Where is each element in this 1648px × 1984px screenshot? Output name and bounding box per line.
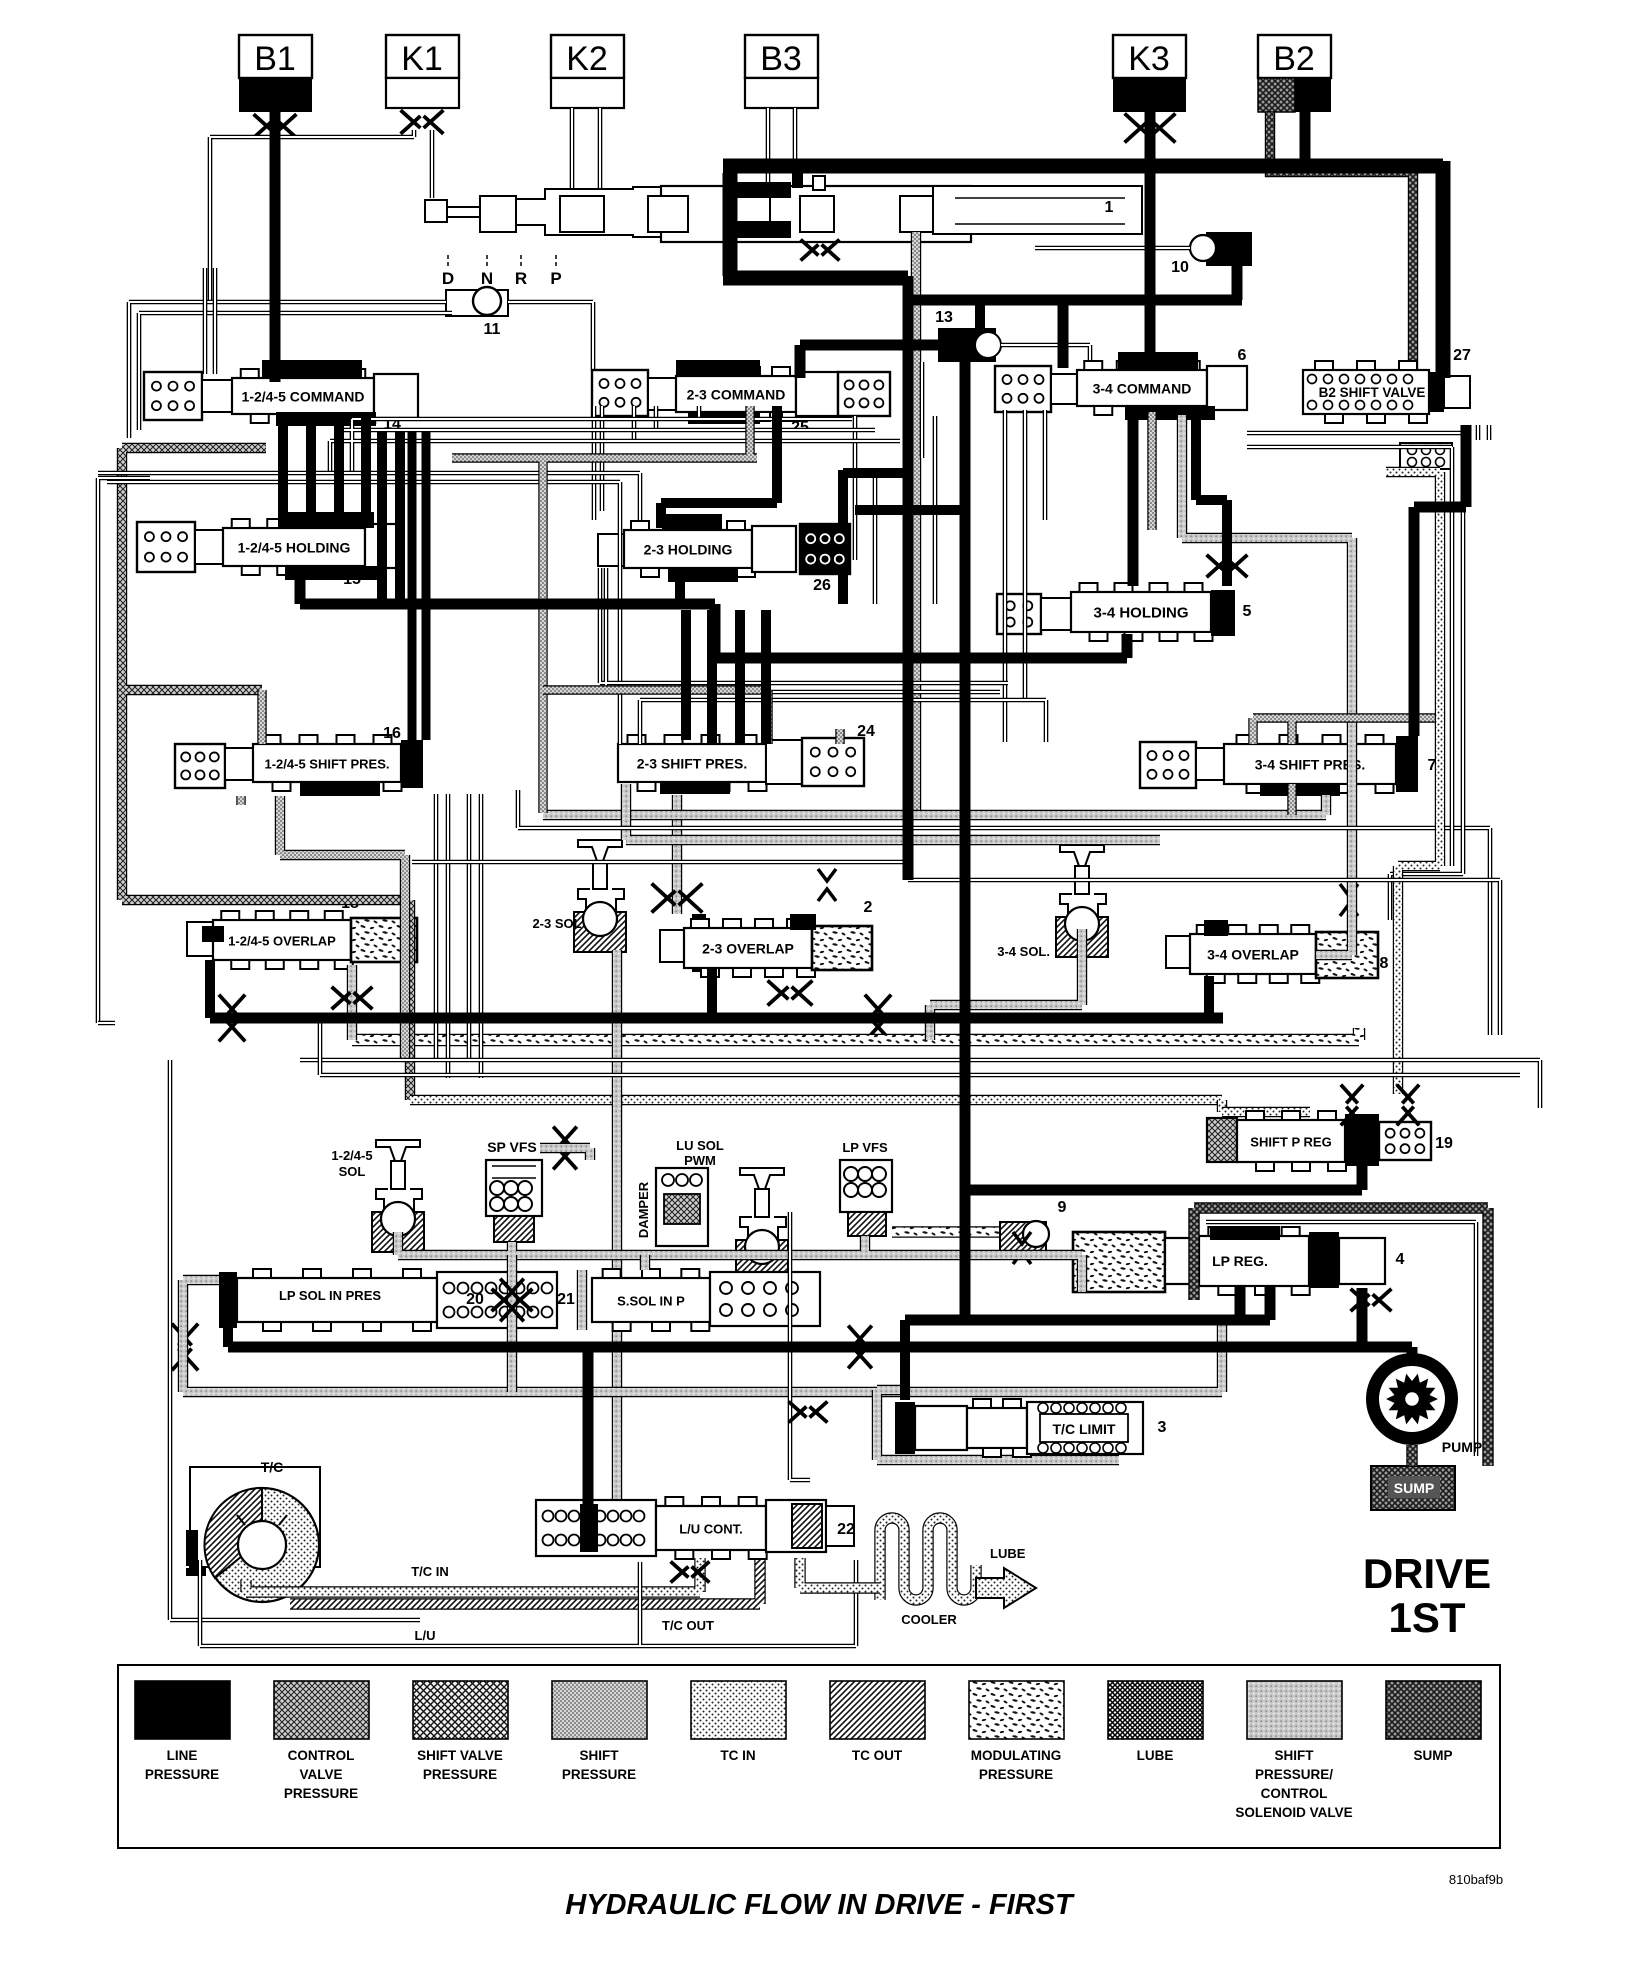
clutch/brake box B2: [1258, 35, 1331, 78]
torque converter T/C: [190, 1467, 320, 1567]
solenoid 1-2/4-5 SOL: [376, 1140, 420, 1161]
svg-text:TC OUT: TC OUT: [852, 1748, 903, 1763]
restrictor on speckled overlap1 drop: [333, 988, 371, 1008]
svg-text:2-3 SHIFT PRES.: 2-3 SHIFT PRES.: [637, 756, 747, 772]
legend swatch SHIFT VALVE PRESSURE: [413, 1681, 508, 1739]
modulating box before LP REG: [1073, 1232, 1165, 1292]
pipe from 13 ball to right: [1001, 345, 1090, 368]
dotted drop below 3-4 shift pres: [1287, 784, 1296, 815]
wire B3 pipes down to manual valve: [768, 108, 795, 186]
svg-text:3-4 COMMAND: 3-4 COMMAND: [1093, 381, 1192, 397]
pipe left outer boundary: [98, 478, 150, 1023]
wire 2-3 command right down to 2-3 holding: [661, 406, 777, 528]
pipes horizontal under overlap rail: [300, 1060, 1540, 1108]
wire 2-3 holding drops: [675, 570, 685, 604]
wire K1 pipes down-left: [402, 111, 442, 132]
svg-text:K1: K1: [401, 40, 443, 78]
dotted below 3-4 command: [1147, 412, 1156, 530]
control valve pressure left boundary line: [122, 448, 410, 1100]
T/C OUT hatched line: [290, 1558, 760, 1604]
svg-text:PWM: PWM: [684, 1153, 716, 1168]
wire B2 sump pattern line to B2 shift valve: [1270, 112, 1413, 380]
restrictor below K3: [1126, 115, 1174, 141]
restrictor under L/U cont: [672, 1563, 708, 1581]
svg-text:SHIFT: SHIFT: [580, 1748, 620, 1763]
svg-text:DAMPER: DAMPER: [636, 1181, 651, 1238]
legend swatch SUMP: [1386, 1681, 1481, 1739]
manual valve right chamber: [933, 186, 1142, 234]
speckled second horizontal: [626, 784, 1160, 840]
wire from check 10 to 3-4 command: [908, 266, 1242, 368]
manual valve black frame left/bottom: [723, 173, 908, 278]
restrictors above shift p reg: [1342, 1086, 1362, 1124]
valve 3-4 holding: [997, 594, 1041, 634]
svg-text:LP SOL IN PRES: LP SOL IN PRES: [279, 1288, 381, 1303]
svg-text:13: 13: [935, 309, 953, 326]
restrictor inside manual valve: [802, 241, 838, 259]
svg-text:T/C: T/C: [261, 1459, 284, 1475]
svg-text:D: D: [442, 269, 454, 288]
svg-text:SHIFT: SHIFT: [1275, 1748, 1315, 1763]
speckled line from overlap1 down to modulating rail: [347, 965, 357, 1040]
valve T/C LIMIT: [877, 1390, 1119, 1460]
shift pressure dotted from left cap of shift pres 1: [257, 690, 266, 744]
valve shift p reg: [1222, 1107, 1310, 1117]
valve 1-2/4-5 command: [144, 372, 202, 420]
speckled drop S SOL: [640, 1255, 650, 1270]
svg-text:LP REG.: LP REG.: [1212, 1253, 1268, 1269]
restrictor under 2-3 overlap: [769, 982, 811, 1004]
speckled vertical right of SP VFS: [540, 1148, 590, 1160]
svg-text:26: 26: [813, 577, 831, 594]
check ball 9: [1000, 1222, 1046, 1256]
speckled drop into 2-3 overlap left cap: [672, 795, 682, 914]
wire pump rail horizontal y1320: [905, 1315, 1270, 1326]
solenoid 2-3 SOL: [578, 840, 622, 861]
svg-text:810baf9b: 810baf9b: [1449, 1872, 1503, 1887]
svg-text:25: 25: [791, 419, 809, 436]
pipe mid horizontal: [518, 790, 1490, 1035]
wire main line under holding valves: [300, 570, 1127, 658]
svg-text:LINE: LINE: [167, 1748, 198, 1763]
svg-text:HYDRAULIC FLOW IN DRIVE - FIRS: HYDRAULIC FLOW IN DRIVE - FIRST: [565, 1889, 1075, 1921]
svg-text:B2 SHIFT VALVE: B2 SHIFT VALVE: [1319, 385, 1426, 400]
speckled frame around solenoid row: [183, 1320, 1222, 1392]
svg-text:3: 3: [1158, 1419, 1167, 1436]
black lands on 2-3 holding: [662, 514, 722, 530]
pipe K1 to manual valve stem: [430, 130, 435, 198]
svg-text:1-2/4-5: 1-2/4-5: [331, 1148, 372, 1163]
svg-text:2-3 OVERLAP: 2-3 OVERLAP: [702, 941, 794, 957]
svg-text:SHIFT P REG: SHIFT P REG: [1250, 1135, 1331, 1150]
svg-text:27: 27: [1453, 347, 1471, 364]
dotted line under 2-3 command: [452, 406, 757, 813]
label D N R P: [447, 255, 449, 268]
svg-text:L/U: L/U: [415, 1628, 436, 1643]
check valve above 3-4 overlap: [1340, 884, 1358, 916]
svg-text:T/C LIMIT: T/C LIMIT: [1053, 1421, 1116, 1437]
valve 2-3 overlap: [692, 914, 706, 972]
wire K3 line pressure down to 3-4 command: [1145, 112, 1156, 368]
black lands on 3-4 command: [1118, 352, 1198, 370]
restrictor on overlap rail left: [220, 996, 244, 1040]
valve B2 shift valve: [1303, 370, 1429, 414]
pipes right bundle horizontals: [1247, 425, 1489, 866]
restrictor below B1: [255, 115, 295, 136]
manual valve 1 body: [425, 200, 447, 222]
wire line pressure B2SV to 3-4 shift pres cap 7: [1414, 425, 1466, 736]
wire main bottom rail y1347: [228, 1347, 1412, 1360]
speckled horizontal mid line: [543, 795, 1326, 815]
svg-text:3-4 OVERLAP: 3-4 OVERLAP: [1207, 947, 1299, 963]
svg-text:PRESSURE: PRESSURE: [423, 1767, 497, 1782]
valve 1-2/4-5 holding: [137, 522, 195, 572]
L/U line label: [200, 1560, 856, 1646]
speckled line B2 shift valve to 3-4 overlap spring: [1182, 415, 1352, 955]
restrictor right of 20: [493, 1290, 531, 1310]
svg-text:COOLER: COOLER: [901, 1612, 957, 1627]
svg-text:16: 16: [383, 725, 401, 742]
wire overlap2 to main rail: [707, 968, 717, 1018]
svg-text:PRESSURE: PRESSURE: [145, 1767, 219, 1782]
pipes below shift pres 1 to bottom bundle: [436, 794, 481, 1078]
check ball 11: [446, 290, 508, 316]
svg-text:B2: B2: [1273, 40, 1315, 78]
black lands on 2-3 command: [676, 360, 760, 376]
svg-text:N: N: [481, 269, 493, 288]
modulating pressure line horizontal: [352, 1028, 1359, 1040]
svg-text:20: 20: [466, 1291, 484, 1308]
valve 1-2/4-5 shift pres: [175, 744, 225, 788]
check 12 below B2 shift valve: [1400, 443, 1452, 469]
svg-text:4: 4: [1396, 1251, 1405, 1268]
modulating line to check 9: [892, 1226, 1000, 1237]
T/C IN dotted line: [246, 1558, 700, 1592]
svg-text:1-2/4-5 SHIFT PRES.: 1-2/4-5 SHIFT PRES.: [265, 757, 390, 772]
pipes left horizontals: [98, 473, 640, 744]
pump: [1366, 1353, 1458, 1445]
dotted branch to 2-3 shift pres: [543, 690, 768, 744]
svg-text:PRESSURE: PRESSURE: [284, 1786, 358, 1801]
sump line pump connection: [1406, 1445, 1417, 1466]
svg-text:S.SOL IN P: S.SOL IN P: [617, 1294, 685, 1309]
pipes around check 11: [129, 302, 593, 438]
pipe lu sol line down: [790, 1212, 810, 1480]
speckled line 3-4 sol drop: [930, 929, 1082, 1040]
speckled Z line shift pres1 down right: [280, 796, 405, 1060]
wire T/C limit drop: [900, 1320, 910, 1400]
svg-text:1-2/4-5 COMMAND: 1-2/4-5 COMMAND: [242, 389, 365, 405]
black lands on 1-2/4-5 command: [262, 360, 362, 378]
svg-text:PRESSURE/: PRESSURE/: [1255, 1767, 1333, 1782]
black land on 3-4 overlap: [1204, 920, 1228, 936]
wire overlap1 to main rail: [205, 960, 215, 1018]
legend swatch LUBE: [1108, 1681, 1203, 1739]
wires 1-2/4-5 command to holding: [283, 412, 366, 528]
valve 3-4 command: [995, 366, 1051, 412]
svg-text:T/C OUT: T/C OUT: [662, 1618, 714, 1633]
dotted line left cap shift pres1 down: [236, 796, 245, 805]
legend swatch MODULATING PRESSURE: [969, 1681, 1064, 1739]
black blocks left of T/C: [186, 1530, 198, 1566]
solenoid 3-4 SOL: [1060, 845, 1104, 866]
clutch/brake box K2: [551, 35, 624, 78]
svg-text:R: R: [515, 269, 527, 288]
dotted line above 3-4 shift pres: [1253, 718, 1436, 744]
svg-text:MODULATING: MODULATING: [971, 1748, 1062, 1763]
wire L/U cont drop: [583, 1347, 594, 1508]
restrictor above 3-4 holding: [1208, 556, 1246, 576]
svg-text:TC IN: TC IN: [720, 1748, 755, 1763]
legend swatch TC OUT: [830, 1681, 925, 1739]
manual valve black bands: [731, 182, 791, 198]
restrictor right of LP REG: [1352, 1290, 1390, 1310]
restrictor overlap2: [866, 996, 890, 1040]
svg-text:K3: K3: [1128, 40, 1170, 78]
svg-text:SUMP: SUMP: [1394, 1480, 1434, 1496]
junction 13 black box with ball: [938, 328, 996, 362]
svg-text:SP VFS: SP VFS: [487, 1139, 537, 1155]
svg-text:K2: K2: [566, 40, 608, 78]
check valve above 2-3 overlap spring: [818, 869, 836, 901]
svg-text:5: 5: [1243, 603, 1252, 620]
pipes right column frame: [1390, 430, 1463, 920]
svg-text:PRESSURE: PRESSURE: [979, 1767, 1053, 1782]
svg-text:LP VFS: LP VFS: [842, 1140, 888, 1155]
valve L/U CONT: [536, 1500, 656, 1556]
sump box: [1371, 1466, 1455, 1510]
svg-text:SHIFT VALVE: SHIFT VALVE: [417, 1748, 503, 1763]
valve 2-3 holding: [598, 534, 624, 566]
wire K2 pipe down to manual valve: [572, 108, 600, 196]
restrictor left end bottom rail: [173, 1325, 197, 1369]
line pressure overlay: [270, 112, 281, 382]
restrictor on SP VFS drop: [501, 1280, 522, 1320]
svg-text:2-3 COMMAND: 2-3 COMMAND: [687, 387, 786, 403]
svg-text:SUMP: SUMP: [1413, 1748, 1452, 1763]
restrictor near L/U: [790, 1403, 826, 1421]
wire B1 line pressure down to 1-2/4-5 command: [270, 112, 281, 382]
svg-text:3-4 SOL.: 3-4 SOL.: [997, 944, 1050, 959]
svg-text:24: 24: [857, 723, 875, 740]
clutch/brake box B1: [239, 35, 312, 78]
svg-text:CONTROL: CONTROL: [288, 1748, 355, 1763]
dotted vertical to 1-2/4-5 sol region: [410, 1095, 1222, 1105]
restrictor above SP VFS: [554, 1128, 575, 1168]
svg-text:2-3 HOLDING: 2-3 HOLDING: [644, 542, 733, 558]
svg-text:11: 11: [484, 321, 501, 338]
clutch/brake box K3: [1113, 35, 1186, 78]
speckled rail under solenoids y1255: [398, 1232, 1082, 1292]
svg-text:LU SOL: LU SOL: [676, 1138, 724, 1153]
svg-text:3-4 HOLDING: 3-4 HOLDING: [1093, 605, 1188, 622]
svg-text:6: 6: [1238, 347, 1247, 364]
dotted stub above 24 cap: [835, 729, 844, 744]
legend swatch SHIFT PRESSURE: [552, 1681, 647, 1739]
svg-text:LUBE: LUBE: [990, 1546, 1026, 1561]
wire LP sol pres drop: [223, 1326, 233, 1347]
wire 3-4 command right down, restrictor, to 3-4 holding right: [1196, 410, 1227, 586]
svg-text:1ST: 1ST: [1388, 1594, 1465, 1641]
check ball 10: [1206, 232, 1252, 266]
wire K3 down from 3-4 command to 3-4 holding: [1128, 410, 1139, 586]
svg-text:PRESSURE: PRESSURE: [562, 1767, 636, 1782]
restrictor on bottom rail mid: [849, 1327, 870, 1367]
valve 3-4 shift pres: [1140, 742, 1196, 788]
legend swatch CONTROL VALVE PRESSURE: [274, 1681, 369, 1739]
svg-text:LUBE: LUBE: [1137, 1748, 1174, 1763]
dotted frame right side: [1386, 472, 1440, 1094]
svg-text:10: 10: [1171, 259, 1189, 276]
pipe second left vertical: [205, 268, 215, 374]
legend swatch SHIFT PRESSURE/ CONTROL SOLENOID VALVE: [1247, 1681, 1342, 1739]
legend box: [118, 1665, 1500, 1848]
valve 2-3 shift pres: [618, 744, 766, 782]
wire 13 long vertical line pressure: [960, 362, 971, 1318]
valve 2-3 command: [592, 370, 648, 416]
pipe cooler line from L/U: [800, 1558, 880, 1588]
svg-text:21: 21: [557, 1291, 575, 1308]
wire 13 to 2-3 command: [800, 345, 938, 378]
damper box: [656, 1168, 708, 1246]
sump pattern frame around pump: [1194, 1208, 1488, 1466]
svg-text:T/C IN: T/C IN: [411, 1564, 449, 1579]
svg-text:1-2/4-5 HOLDING: 1-2/4-5 HOLDING: [238, 540, 351, 556]
pipes under 2-3 holding: [600, 568, 1008, 692]
svg-text:1: 1: [1105, 199, 1114, 216]
pipes horizontal y860-880 center right: [908, 880, 1500, 1035]
legend swatch TC IN: [691, 1681, 786, 1739]
svg-text:1-2/4-5 OVERLAP: 1-2/4-5 OVERLAP: [228, 934, 336, 949]
black land overlap 1 left: [202, 926, 224, 942]
wire shift p reg down-left to main vertical: [965, 1166, 1362, 1190]
black lands on 1-2/4-5 holding: [278, 512, 374, 528]
svg-text:19: 19: [1435, 1135, 1453, 1152]
svg-text:SOL: SOL: [339, 1164, 366, 1179]
black land on 2-3 overlap: [790, 914, 816, 930]
valve LP SOL IN PRES: [183, 1280, 220, 1360]
svg-text:P: P: [550, 269, 561, 288]
wires above 1-2/4-5 shift pres: [686, 610, 766, 744]
svg-text:8: 8: [1380, 955, 1389, 972]
wire B2 line pressure down: [1300, 112, 1311, 166]
legend swatch LINE PRESSURE: [135, 1681, 230, 1739]
wire LP REG drops to pump rail: [1240, 1286, 1362, 1347]
pipes above shift pres 2: [640, 700, 1046, 744]
pipes horizontal bundle left-center: [330, 419, 900, 482]
pipes vertical cluster center: [855, 362, 1045, 604]
svg-text:9: 9: [1058, 1199, 1067, 1216]
svg-text:DRIVE: DRIVE: [1363, 1550, 1491, 1597]
svg-text:22: 22: [837, 1521, 855, 1538]
lube arrow: [976, 1568, 1036, 1608]
svg-text:SOLENOID VALVE: SOLENOID VALVE: [1235, 1805, 1352, 1820]
speckled line 2-3 sol drop: [612, 950, 622, 1500]
svg-text:2: 2: [864, 899, 873, 916]
svg-text:L/U CONT.: L/U CONT.: [679, 1522, 743, 1537]
speckled drop SP VFS: [507, 1255, 517, 1392]
svg-text:CONTROL: CONTROL: [1261, 1786, 1328, 1801]
svg-text:B1: B1: [254, 40, 296, 78]
black bits under shift pres 1: [300, 782, 380, 796]
wire main overlap rail: [210, 1013, 1223, 1024]
wire 2-3 holding 26 cap to junctions: [843, 470, 965, 604]
wires command right side down: [382, 432, 400, 604]
valve 1-2/4-5 overlap: [187, 922, 213, 956]
svg-text:PUMP: PUMP: [1442, 1439, 1482, 1455]
wire line pressure rail from manual valve to B2 shift valve: [723, 161, 1443, 378]
pipes below 2-3 command: [594, 406, 699, 520]
svg-text:VALVE: VALVE: [299, 1767, 342, 1782]
valve LP REG: [1165, 1238, 1199, 1284]
pipe T/C outline left: [98, 1023, 420, 1620]
shift pressure dotted line from manual valve down: [911, 232, 921, 818]
svg-text:2-3 SOL: 2-3 SOL: [532, 916, 581, 931]
svg-text:B3: B3: [760, 40, 802, 78]
wire overlap3 to main rail: [1204, 976, 1214, 1018]
valve 3-4 overlap: [1166, 936, 1190, 968]
cooler coil: [880, 1518, 976, 1600]
clutch/brake box K1: [386, 35, 459, 78]
long dotted horizontal y1100 right part: [1217, 1100, 1227, 1112]
clutch/brake box B3: [745, 35, 818, 78]
